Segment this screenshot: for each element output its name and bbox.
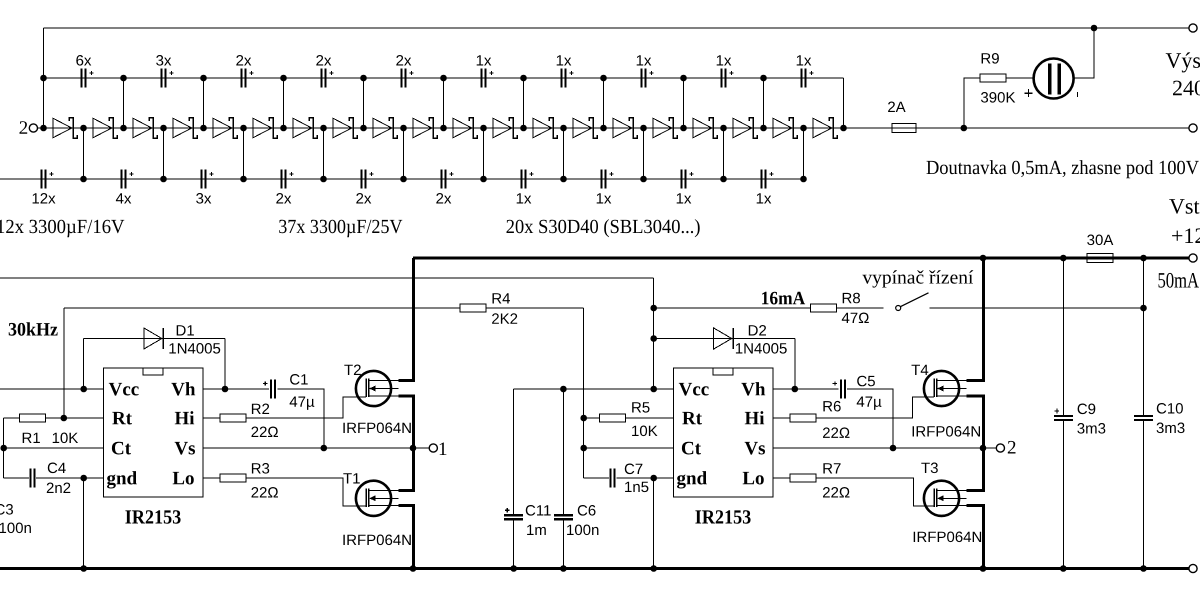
- junction: [400, 176, 407, 183]
- label 2n2: [47, 483, 71, 494]
- label C11 1m: [527, 525, 546, 535]
- wire IC1 Lo row to T1 gate: [203, 478, 366, 506]
- wire down-column: [563, 128, 565, 179]
- label node 1: [440, 443, 447, 456]
- pin Ct: [112, 442, 131, 455]
- wire switch to battery side: [929, 307, 1143, 309]
- label Výstup: [1166, 52, 1200, 72]
- node 2 circle: [996, 444, 1004, 452]
- wire up-column: [123, 78, 125, 128]
- pin Vcc U2: [679, 383, 709, 396]
- label 30kHz: [9, 322, 58, 335]
- wire main diode row: [38, 127, 1189, 129]
- label R5: [632, 402, 649, 412]
- wire down-column: [83, 128, 85, 179]
- label +12V: [1172, 228, 1200, 243]
- transistor T2 IRFP064N: [356, 371, 398, 406]
- junction: [400, 125, 407, 132]
- wire left vertical input column: [43, 28, 45, 128]
- junction: [0, 445, 7, 452]
- fuse 30A: [1087, 254, 1113, 263]
- fuse 2A: [892, 124, 916, 133]
- wire C11 vertical lower: [513, 520, 515, 568]
- label 390K: [981, 92, 1015, 103]
- capacitor C4 2n2: [29, 469, 35, 488]
- pin Vcc: [109, 383, 139, 396]
- wire up-column: [763, 78, 765, 128]
- pin gnd U2: [677, 471, 707, 488]
- junction: [650, 305, 657, 312]
- terminal output right: [1189, 124, 1197, 132]
- label 2A: [888, 102, 906, 113]
- top multiplier capacitor 1x: [717, 55, 734, 87]
- junction: [280, 75, 287, 82]
- lamp electrodes: [1048, 64, 1061, 95]
- pin Lo: [173, 472, 194, 485]
- junction: [1060, 255, 1067, 262]
- capacitor C1 47u: [263, 380, 276, 399]
- label C9: [1078, 404, 1096, 415]
- terminal ground input: [1189, 564, 1197, 572]
- wire up-column: [523, 78, 525, 128]
- neon lamp (doutnavka): [1034, 59, 1074, 99]
- lamp minus mark: [1077, 92, 1078, 97]
- junction: [980, 255, 987, 262]
- schottky diode 6 (S30D40): [253, 118, 277, 138]
- junction: [360, 75, 367, 82]
- label R3: [252, 463, 269, 474]
- top multiplier capacitor 6x: [76, 55, 93, 87]
- label D1: [177, 325, 194, 335]
- schottky diode 5 (S30D40): [213, 118, 237, 138]
- label C1 47u: [290, 397, 315, 410]
- junction: [61, 415, 68, 422]
- pin Rt U2: [682, 412, 702, 425]
- label 16mA: [762, 292, 805, 305]
- wire R9 to lamp: [1006, 77, 1034, 79]
- junction: [680, 125, 687, 132]
- junction: [1140, 565, 1147, 572]
- junction: [120, 75, 127, 82]
- wire IC1 gnd row: [36, 477, 104, 479]
- wire down-column: [643, 128, 645, 179]
- resistor R6: [790, 414, 816, 422]
- label T3 IRFP064N: [914, 532, 981, 543]
- wire D1 anode vertical: [83, 339, 85, 390]
- junction: [320, 125, 327, 132]
- resistor R2: [220, 414, 246, 422]
- label R7: [823, 463, 840, 473]
- resistor R4: [460, 304, 486, 312]
- junction: [200, 125, 207, 132]
- wire IC2 Rt row: [584, 417, 674, 419]
- wire C10 vertical lower: [1143, 421, 1145, 568]
- label C11: [526, 505, 551, 516]
- label D1 1N4005: [169, 343, 220, 354]
- schottky diode 13 (S30D40): [533, 118, 557, 138]
- resistor R3: [220, 474, 246, 482]
- wire IC2 Ct row: [584, 447, 674, 449]
- junction: [80, 565, 87, 572]
- wire +12V rail: [413, 257, 1189, 260]
- junction: [440, 75, 447, 82]
- label 100n (clipped): [0, 523, 31, 534]
- label D2 1N4005: [736, 343, 787, 354]
- junction: [640, 176, 647, 183]
- terminal top right: [1189, 24, 1197, 32]
- resistor R9: [980, 74, 1006, 82]
- label Doutnavka note: [927, 160, 1199, 178]
- wire IC1 Vcc row: [0, 388, 104, 390]
- label IR2153 (U1): [125, 510, 180, 523]
- junction: [410, 445, 417, 452]
- junction: [961, 125, 968, 132]
- capacitor C11 1m: [504, 508, 523, 521]
- schottky diode 11 (S30D40): [453, 118, 477, 138]
- resistor R7: [790, 474, 816, 482]
- wire C9 vertical lower: [1062, 421, 1064, 568]
- junction: [40, 75, 47, 82]
- capacitor C9 3m3: [1054, 409, 1073, 422]
- label R7 22ohm: [823, 487, 850, 498]
- junction: [650, 475, 657, 482]
- wire C6 vertical upper: [562, 389, 564, 514]
- junction: [560, 386, 567, 393]
- junction: [80, 125, 87, 132]
- bottom multiplier capacitor 1x: [597, 170, 614, 204]
- switch lever: [901, 293, 929, 307]
- label terminal 2: [20, 121, 28, 134]
- schottky diode 10 (S30D40): [413, 118, 437, 138]
- junction: [800, 176, 807, 183]
- pin gnd: [107, 471, 137, 488]
- label T4 IRFP064N: [913, 426, 980, 437]
- junction: [222, 386, 229, 393]
- resistor R5: [600, 414, 626, 422]
- label T4: [912, 365, 929, 375]
- pin Vs U2: [745, 442, 765, 455]
- junction: [240, 125, 247, 132]
- wire C11 vertical upper: [513, 389, 515, 514]
- label R6 22ohm: [823, 427, 850, 438]
- wire C4 row left segment: [4, 477, 29, 479]
- bottom multiplier capacitor 1x: [757, 170, 774, 204]
- schottky diode 15 (S30D40): [613, 118, 637, 138]
- wire IC2 Vh row: [773, 388, 839, 390]
- IC U2 IR2153 box: [674, 368, 773, 497]
- label T3: [921, 463, 938, 474]
- wire right vertical from top cap row to diode row: [843, 78, 845, 128]
- label 2K2: [492, 313, 517, 324]
- label C10 3m3: [1157, 423, 1185, 434]
- wire D1 cathode vertical to Vh: [224, 339, 226, 390]
- switch pivot (vypínač řízení): [896, 306, 901, 311]
- top multiplier capacitor 3x: [156, 55, 173, 87]
- wire vertical R4 to Rt of IC1: [63, 308, 65, 418]
- label 47ohm: [842, 313, 869, 324]
- junction: [980, 445, 987, 452]
- wire top rail from node A to lamp branch: [44, 27, 1189, 29]
- transistor T3 IRFP064N: [924, 481, 966, 516]
- junction: [80, 386, 87, 393]
- junction: [640, 125, 647, 132]
- wire top capacitor row: [44, 77, 844, 79]
- label R9: [982, 53, 999, 64]
- label C7: [625, 464, 643, 475]
- pin Vh U2: [741, 382, 765, 396]
- schottky diode 19 (S30D40): [773, 118, 797, 138]
- schottky diode 1 (S30D40): [53, 118, 77, 138]
- junction: [800, 125, 807, 132]
- schottky diode 17 (S30D40): [693, 118, 717, 138]
- caption 12x 3300uF/16V: [0, 220, 124, 238]
- wire down-column: [803, 128, 805, 179]
- junction: [890, 445, 897, 452]
- junction: [280, 125, 287, 132]
- capacitor C5 47u: [833, 380, 846, 399]
- bottom multiplier capacitor 12x: [33, 170, 56, 204]
- label T2: [344, 365, 361, 376]
- junction: [840, 125, 847, 132]
- wire ground rail: [0, 567, 1189, 570]
- wire IC1 Vs output row to node 1: [203, 447, 429, 449]
- label R3 22ohm: [252, 487, 279, 498]
- wire down-column: [243, 128, 245, 179]
- resistor R8: [811, 304, 837, 312]
- junction: [1140, 305, 1147, 312]
- wire IC2 Hi row to T4 gate: [773, 397, 934, 418]
- wire IC1 gnd vertical to rail: [83, 478, 85, 569]
- junction: [520, 75, 527, 82]
- wire IC1 Rt row: [4, 417, 104, 419]
- capacitor C10 3m3: [1134, 415, 1153, 421]
- junction: [360, 125, 367, 132]
- junction: [1091, 25, 1098, 32]
- wire IC2 gnd vertical to rail: [653, 478, 655, 569]
- schottky diode 8 (S30D40): [333, 118, 357, 138]
- junction: [650, 386, 657, 393]
- label D2: [749, 325, 766, 336]
- junction: [320, 176, 327, 183]
- schottky diode 9 (S30D40): [373, 118, 397, 138]
- label vypínač řízení: [862, 270, 973, 287]
- junction: [1060, 565, 1067, 572]
- wire C6 vertical lower: [562, 520, 564, 568]
- top multiplier capacitor 1x: [797, 55, 814, 87]
- junction: [600, 75, 607, 82]
- wire IC1 Hi row to T2 gate: [203, 397, 366, 418]
- pin Ct U2: [682, 442, 701, 455]
- junction: [792, 386, 799, 393]
- caption 20x S30D40: [507, 219, 700, 237]
- bus right: +12 to T4 drain: [966, 258, 983, 381]
- wire IC1 Vh row: [203, 388, 269, 390]
- junction: [760, 75, 767, 82]
- terminal +12V input: [1189, 254, 1197, 262]
- schottky diode 2 (S30D40): [93, 118, 117, 138]
- label Vstup: [1169, 199, 1200, 218]
- wire bottom capacitor row: [0, 178, 804, 180]
- wire supply vertical to IC2 Vcc: [653, 278, 655, 389]
- wire IC2 Vs output row to node 2: [773, 447, 997, 449]
- bottom multiplier capacitor 3x: [196, 170, 213, 204]
- junction: [240, 176, 247, 183]
- label C5 47u: [857, 397, 882, 410]
- bottom multiplier capacitor 1x: [677, 170, 694, 204]
- IC U1 IR2153 box: [104, 368, 203, 497]
- pin Hi: [175, 411, 194, 424]
- junction: [520, 125, 527, 132]
- wire D2 row: [654, 338, 795, 340]
- wire up-column: [443, 78, 445, 128]
- capacitor C6 100n: [554, 514, 573, 520]
- wire IC2 Lo row to T3 gate: [773, 478, 934, 506]
- wire D1 row: [84, 338, 225, 340]
- wire up-column: [683, 78, 685, 128]
- junction: [410, 565, 417, 572]
- bottom multiplier capacitor 2x: [356, 170, 373, 204]
- wire C10 vertical upper: [1143, 258, 1145, 415]
- wire up-column: [283, 78, 285, 128]
- diode D2 1N4005: [714, 328, 734, 349]
- schottky diode 14 (S30D40): [573, 118, 597, 138]
- junction: [80, 475, 87, 482]
- bottom multiplier capacitor 2x: [276, 170, 293, 204]
- junction: [480, 176, 487, 183]
- pin Rt: [112, 412, 132, 425]
- schottky diode 20 (S30D40): [813, 118, 837, 138]
- junction: [560, 125, 567, 132]
- junction: [160, 176, 167, 183]
- wire R1 left vertical: [3, 418, 5, 478]
- label R1: [23, 433, 40, 443]
- label R8: [843, 293, 860, 304]
- wire R4 run: [64, 307, 584, 309]
- bus left: +12 to T2 drain: [398, 258, 413, 381]
- bus left: T2 source to T1 drain: [398, 396, 413, 491]
- label R6: [823, 401, 840, 412]
- schottky diode 3 (S30D40): [133, 118, 157, 138]
- label R4: [493, 293, 511, 303]
- wire C5 to corner: [847, 389, 893, 448]
- lamp plus mark: [1025, 89, 1033, 97]
- label 50mA: [1159, 273, 1199, 288]
- wire down-column: [723, 128, 725, 179]
- label C10: [1157, 403, 1183, 414]
- wire Vcc supply line y278: [0, 277, 654, 279]
- bus left: T1 source to ground rail: [398, 506, 413, 569]
- caption 37x 3300uF/25V: [279, 220, 402, 238]
- junction: [760, 125, 767, 132]
- junction: [560, 176, 567, 183]
- wire IC1 Ct row: [4, 447, 104, 449]
- pin Lo U2: [743, 472, 764, 485]
- wire vertical to R5/Ct/C7 of IC2: [583, 308, 585, 478]
- label T1: [343, 473, 360, 483]
- IC U1 notch: [143, 368, 163, 375]
- wire up-column: [363, 78, 365, 128]
- top multiplier capacitor 1x: [557, 55, 574, 87]
- IC U2 notch: [713, 368, 733, 375]
- schottky diode 12 (S30D40): [493, 118, 517, 138]
- junction: [40, 125, 47, 132]
- resistor R1: [20, 414, 46, 422]
- junction: [510, 565, 517, 572]
- label C1: [290, 374, 308, 385]
- label R2 22ohm: [252, 427, 279, 438]
- wire IC2 Vcc row: [514, 388, 674, 390]
- transistor T1 IRFP064N: [356, 481, 398, 516]
- wire IC2 gnd row: [617, 477, 674, 479]
- label IR2153 (U2): [695, 510, 750, 523]
- junction: [680, 75, 687, 82]
- pin Hi U2: [745, 411, 764, 424]
- junction: [160, 125, 167, 132]
- pin Vs: [175, 442, 195, 455]
- junction: [120, 125, 127, 132]
- wire down-column: [483, 128, 485, 179]
- top multiplier capacitor 1x: [477, 55, 494, 87]
- top multiplier capacitor 2x: [396, 55, 413, 87]
- junction: [580, 415, 587, 422]
- wire down-column: [403, 128, 405, 179]
- schottky diode 18 (S30D40): [733, 118, 757, 138]
- terminal 2 (multiplier input): [29, 124, 37, 132]
- bus right: T4 source to T3 drain: [966, 396, 983, 491]
- label C4: [48, 463, 66, 474]
- capacitor C7 1n5: [610, 469, 616, 488]
- diode D1 1N4005: [144, 328, 164, 349]
- wire R9 branch vertical: [964, 78, 980, 128]
- junction: [80, 176, 87, 183]
- bottom multiplier capacitor 2x: [436, 170, 453, 204]
- label R1 10K: [53, 433, 78, 444]
- label T2 IRFP064N: [343, 423, 410, 434]
- junction: [580, 445, 587, 452]
- schottky diode 16 (S30D40): [653, 118, 677, 138]
- wire D2 cathode vertical to Vh: [794, 339, 796, 390]
- label R5 10K: [632, 426, 657, 437]
- label 30A: [1087, 235, 1113, 246]
- top multiplier capacitor 1x: [637, 55, 654, 87]
- wire 16mA run to switch: [654, 307, 884, 309]
- wire up-column: [203, 78, 205, 128]
- junction: [720, 176, 727, 183]
- node 1 circle: [429, 444, 437, 452]
- wire up-column: [603, 78, 605, 128]
- schottky diode 7 (S30D40): [293, 118, 317, 138]
- label C6: [578, 505, 596, 516]
- bus right: T3 source to ground rail: [966, 506, 983, 569]
- label C6 100n: [567, 525, 598, 536]
- label 240V: [1173, 81, 1200, 96]
- junction: [321, 445, 328, 452]
- wire down-column: [323, 128, 325, 179]
- label C5: [857, 376, 875, 387]
- junction: [980, 565, 987, 572]
- label T1 IRFP064N: [343, 535, 410, 546]
- junction: [650, 335, 657, 342]
- wire C9 vertical upper: [1062, 258, 1064, 415]
- label C9 3m3: [1077, 423, 1105, 434]
- junction: [650, 565, 657, 572]
- wire C7 row left segment: [584, 477, 609, 479]
- junction: [560, 565, 567, 572]
- junction: [440, 125, 447, 132]
- top multiplier capacitor 2x: [236, 55, 253, 87]
- junction: [480, 125, 487, 132]
- label C3 (clipped): [0, 504, 13, 515]
